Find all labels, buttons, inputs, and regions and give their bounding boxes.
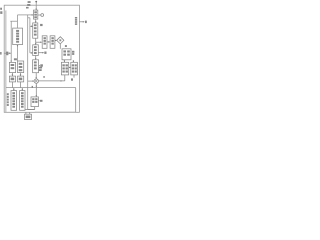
- box E glyphs vertical: [12, 92, 15, 94]
- external box stubs: [26, 112, 30, 114]
- box U3: [33, 45, 39, 56]
- output arrow outside label: [85, 21, 87, 24]
- U4 right label: [40, 64, 43, 66]
- box F glyphs vertical: [21, 92, 24, 94]
- box D glyphs: [19, 78, 23, 81]
- H stub down: [73, 75, 75, 78]
- arrow G to H: [69, 66, 71, 68]
- external box glyphs: [26, 116, 31, 119]
- arrow wire into E: [13, 88, 15, 91]
- G output down: [64, 75, 66, 81]
- box U1 glyphs: [34, 11, 37, 13]
- arrow A to C: [11, 73, 13, 77]
- arrow U3 right output: [38, 52, 43, 54]
- box G glyphs: [62, 64, 64, 66]
- summing junction: [34, 79, 38, 83]
- wire into box2: [30, 25, 33, 27]
- branch wire to M1: [36, 41, 42, 43]
- box D: [18, 76, 24, 82]
- box C: [9, 76, 15, 82]
- box B glyphs: [19, 63, 23, 65]
- arrow U3 to U4: [35, 56, 37, 60]
- arrow wire into F: [21, 88, 23, 91]
- box F: [20, 91, 25, 111]
- arrow U2 to U3: [35, 38, 37, 44]
- box M1 glyphs: [44, 37, 46, 39]
- label tick right of U4: [39, 64, 40, 66]
- box U2 glyphs: [34, 24, 37, 26]
- box W: [31, 97, 38, 107]
- right border label column: [75, 17, 77, 19]
- circled label right of U1: [41, 14, 44, 17]
- numeral above H: [73, 60, 74, 62]
- wire into box3: [30, 52, 33, 54]
- bus tick 27.7-29.9: [28, 17, 30, 19]
- wire y109.5: [25, 109, 35, 111]
- left input wire y53: [4, 52, 11, 54]
- box C glyphs: [11, 78, 15, 81]
- arrow M1 to M2: [47, 41, 50, 43]
- arrow M3 to G: [63, 60, 65, 62]
- box H glyphs: [72, 64, 74, 66]
- box W glyphs: [32, 98, 34, 100]
- box A glyphs: [11, 64, 15, 66]
- box M3 glyphs: [63, 50, 66, 52]
- left edge input labels: [0, 8, 2, 10]
- box E: [11, 91, 17, 111]
- wire B: [10, 20, 17, 22]
- W right label: [40, 100, 43, 102]
- wire A-B vertical: [17, 15, 19, 21]
- arrow B to D: [20, 73, 22, 77]
- inner left border: [5, 10, 7, 112]
- long bus wire y87.6: [6, 87, 76, 89]
- box U3 glyphs: [34, 46, 37, 48]
- floating label left of G: [39, 67, 43, 69]
- bus line x29.9: [29, 18, 31, 53]
- left vertical label: [7, 93, 9, 95]
- summer output down to box W: [35, 83, 37, 96]
- diamond to M3: [59, 44, 61, 49]
- antenna dot: [35, 1, 37, 3]
- arrow M2 to diamond: [55, 39, 57, 41]
- wire into summer: [28, 80, 35, 82]
- external bottom box: [25, 114, 32, 119]
- antenna labels: [28, 1, 31, 3]
- outer frame: [4, 5, 79, 112]
- box H: [71, 62, 78, 75]
- box U1 top left column: [34, 10, 38, 19]
- U3 arrow label: [44, 52, 46, 54]
- box L1 far left: [13, 28, 23, 44]
- right down wire: [75, 88, 77, 112]
- box M1: [42, 36, 47, 49]
- label tick right of M3: [70, 53, 73, 55]
- U2 right label: [40, 24, 43, 26]
- arrow U4 to summer: [35, 73, 37, 79]
- text smudges: [0, 1, 87, 118]
- wire summer to G column: [39, 80, 65, 82]
- M3 right label: [72, 51, 74, 53]
- decision diamond: [57, 37, 64, 44]
- output arrow right: [79, 21, 84, 23]
- junction dot: [60, 80, 61, 81]
- box A: [9, 62, 15, 72]
- antenna stub wire: [35, 2, 37, 10]
- box U4 glyphs: [34, 61, 37, 63]
- box M3: [62, 49, 71, 60]
- label tick right of W: [38, 100, 39, 102]
- box M2 glyphs: [51, 37, 53, 39]
- box U4: [33, 60, 39, 73]
- box L1 glyphs: [16, 30, 19, 32]
- label above B: [14, 58, 17, 60]
- diamond glyph: [59, 39, 61, 41]
- box U2: [33, 23, 38, 38]
- arrow C down to wire: [11, 82, 13, 88]
- box G: [61, 62, 68, 75]
- tick label above wire: [32, 86, 33, 88]
- wire A into box1: [18, 14, 34, 16]
- wire L1 output down: [17, 45, 19, 61]
- arrow U1 to U2: [35, 19, 37, 22]
- arrowheads: [9, 9, 84, 97]
- box B: [18, 61, 24, 73]
- box M2: [50, 36, 55, 49]
- numeral below H: [71, 78, 73, 80]
- bottom wire: [35, 111, 76, 113]
- bus line x11: [10, 21, 12, 62]
- wire L1 top feed: [17, 21, 19, 28]
- bus line x27.7: [27, 15, 29, 110]
- box W output down: [34, 107, 36, 110]
- arrow D down to wire: [20, 82, 22, 88]
